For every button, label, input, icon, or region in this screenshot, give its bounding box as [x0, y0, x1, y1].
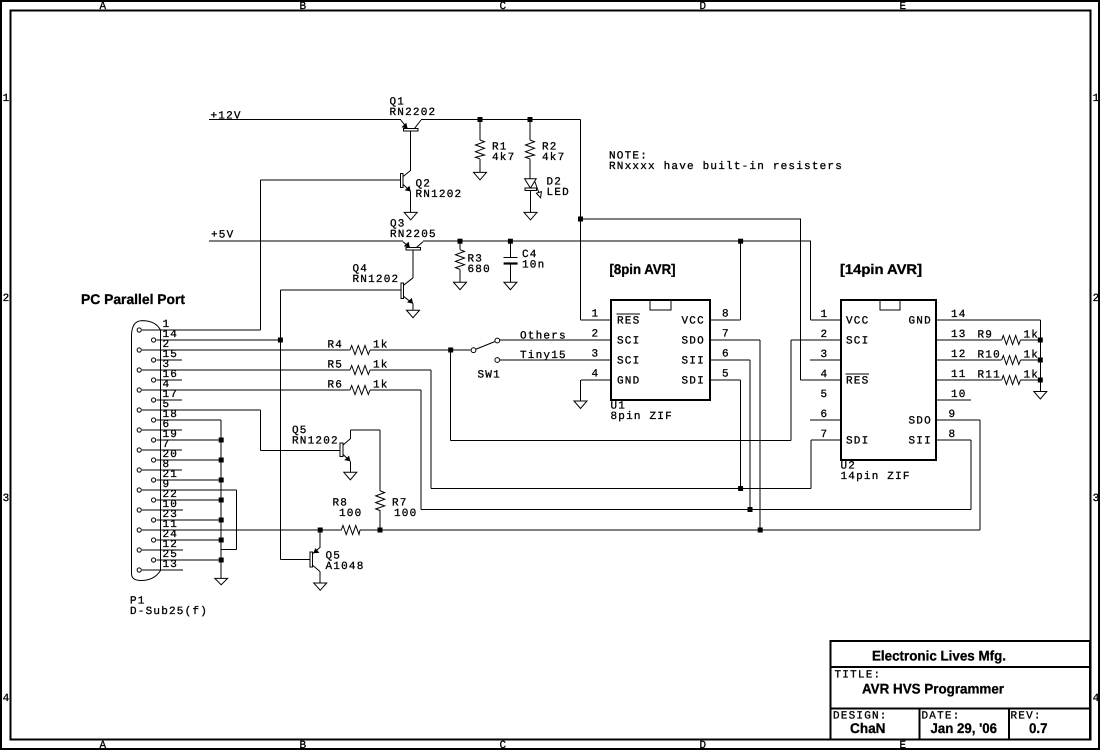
junction [458, 239, 463, 244]
wire U1 pin6 SII down [710, 360, 750, 510]
ground [215, 578, 228, 584]
switch SW1 [471, 338, 501, 381]
resistor R8 [333, 498, 363, 535]
U1 pin numbers [592, 309, 730, 381]
wire P1 stub pins [142, 360, 183, 570]
transistor Q2 [260, 170, 462, 212]
svg-text:B: B [300, 1, 308, 13]
svg-text:SII: SII [909, 436, 932, 448]
junction [318, 528, 323, 533]
svg-text:2: 2 [1093, 293, 1100, 305]
svg-text:RN1202: RN1202 [292, 436, 339, 448]
svg-text:0.7: 0.7 [1029, 720, 1048, 736]
svg-text:R5: R5 [328, 359, 344, 371]
ground [314, 583, 327, 590]
op-amp U2 14pin ZIF box [841, 300, 937, 483]
svg-text:1: 1 [1093, 93, 1100, 105]
svg-text:[14pin AVR]: [14pin AVR] [840, 261, 922, 277]
wire SW1 Others throw to U1 pin2 [500, 339, 611, 341]
junction [1038, 338, 1043, 343]
svg-text:SW1: SW1 [478, 370, 501, 382]
svg-text:C: C [500, 1, 508, 13]
note text [609, 151, 843, 174]
svg-text:2: 2 [592, 329, 600, 341]
svg-text:R9: R9 [978, 329, 994, 341]
resistor R4 with wire P1 pin2 to SW1 [142, 339, 471, 354]
junction [1038, 358, 1043, 363]
svg-text:D: D [700, 1, 708, 13]
resistor R3 [456, 241, 491, 282]
svg-text:RES: RES [617, 316, 640, 328]
pin circles right column P1 pins 14-25 [152, 338, 156, 562]
svg-text:C: C [500, 740, 508, 750]
transistor Q1 [390, 97, 437, 171]
svg-text:GND: GND [909, 316, 932, 328]
junction [748, 507, 753, 512]
svg-text:5: 5 [821, 389, 829, 401]
wire U2 pin6 stub [810, 419, 841, 421]
connector P1 outline [132, 321, 161, 581]
svg-text:1: 1 [3, 93, 11, 105]
svg-text:RN1202: RN1202 [353, 274, 400, 286]
wire U1 pin5 SDI down [710, 380, 741, 489]
resistor R10 with wire U2 pin12 [936, 349, 1040, 364]
wire P1 pin5 to Q5 base [142, 410, 340, 450]
svg-text:+5V: +5V [211, 229, 234, 241]
resistor R2 [526, 120, 566, 179]
wire U2 pin14 GND to resistor bus [936, 320, 1040, 392]
svg-text:7: 7 [821, 429, 829, 441]
svg-text:12: 12 [951, 349, 967, 361]
svg-text:+12V: +12V [211, 110, 242, 122]
junction [508, 239, 513, 244]
svg-text:10n: 10n [522, 260, 545, 272]
svg-text:Electronic Lives Mfg.: Electronic Lives Mfg. [872, 648, 1006, 664]
svg-text:SDI: SDI [682, 376, 705, 388]
svg-text:4: 4 [3, 693, 11, 705]
svg-text:5: 5 [722, 369, 730, 381]
junction [1038, 378, 1043, 383]
svg-text:A: A [100, 740, 108, 750]
svg-text:RES: RES [846, 376, 869, 388]
pin number labels P1 [163, 319, 179, 571]
svg-text:ChaN: ChaN [850, 720, 886, 736]
resistor R11 with wire U2 pin11 [936, 369, 1040, 384]
wire U1 pin7 SDO down [710, 340, 760, 530]
wire +5V rail [209, 241, 841, 320]
connector P1 label [130, 596, 208, 619]
svg-text:[8pin AVR]: [8pin AVR] [610, 261, 676, 277]
svg-text:14: 14 [951, 309, 967, 321]
svg-text:RN1202: RN1202 [416, 189, 463, 201]
svg-text:14pin ZIF: 14pin ZIF [841, 471, 911, 483]
svg-text:4: 4 [821, 369, 829, 381]
wire P1 pin9 to ground bus [142, 490, 236, 549]
svg-text:6: 6 [722, 349, 730, 361]
resistor R5 with wire P1 pin3 SDI net [142, 359, 431, 374]
wire U1 pin4 GND [581, 380, 612, 401]
ground [1034, 392, 1047, 400]
junction [478, 117, 483, 122]
ground [524, 212, 537, 220]
wire SDO net P1 pin11 row [142, 420, 980, 530]
wire U1 VCC pin8 [710, 241, 741, 320]
svg-text:SII: SII [682, 356, 705, 368]
svg-text:680: 680 [468, 264, 491, 276]
svg-text:11: 11 [951, 369, 967, 381]
junction [448, 348, 453, 353]
svg-text:9: 9 [949, 409, 957, 421]
svg-text:8: 8 [949, 429, 957, 441]
wire P1 pin1 to Q2 base [142, 180, 260, 330]
svg-text:LED: LED [547, 187, 570, 199]
svg-text:SDO: SDO [682, 336, 705, 348]
resistor R7 [376, 491, 418, 530]
svg-text:4k7: 4k7 [542, 152, 565, 164]
wire U2 pin10 stub [936, 399, 971, 401]
svg-text:2: 2 [3, 293, 11, 305]
junction [738, 239, 743, 244]
svg-text:RN2202: RN2202 [390, 107, 437, 119]
junction [528, 117, 533, 122]
resistor R6 with wire P1 pin4 SII net [142, 379, 421, 394]
transistor Q4 [280, 264, 413, 311]
svg-text:10: 10 [951, 389, 967, 401]
svg-text:8: 8 [722, 309, 730, 321]
svg-text:R4: R4 [328, 339, 344, 351]
ground [504, 282, 517, 290]
U1 pin labels [617, 314, 705, 388]
ground [474, 172, 487, 180]
svg-text:RN2205: RN2205 [390, 229, 437, 241]
svg-text:1k: 1k [1024, 329, 1040, 341]
svg-text:R10: R10 [978, 349, 1001, 361]
svg-text:VCC: VCC [682, 316, 705, 328]
transistor Q5 A1048 [310, 530, 365, 583]
svg-text:3: 3 [592, 349, 600, 361]
resistor R1 [476, 120, 516, 173]
svg-text:7: 7 [722, 329, 730, 341]
svg-text:R6: R6 [328, 379, 344, 391]
svg-text:1: 1 [592, 309, 600, 321]
svg-text:SCI: SCI [617, 336, 640, 348]
transistor Q5 RN1202 [292, 425, 380, 491]
svg-text:SDI: SDI [846, 436, 869, 448]
LED D2 [525, 177, 570, 213]
svg-text:A1048: A1048 [326, 561, 365, 573]
svg-text:8pin ZIF: 8pin ZIF [611, 411, 673, 423]
svg-text:PC Parallel Port: PC Parallel Port [81, 291, 185, 307]
junction [278, 338, 283, 343]
svg-text:Jan 29, '06: Jan 29, '06 [931, 720, 998, 736]
svg-text:D: D [700, 740, 708, 750]
svg-text:SDO: SDO [909, 416, 932, 428]
svg-text:6: 6 [821, 409, 829, 421]
svg-text:3: 3 [3, 493, 11, 505]
svg-text:3: 3 [821, 349, 829, 361]
ground [574, 401, 587, 409]
svg-text:RNxxxx have built-in resisters: RNxxxx have built-in resisters [609, 161, 843, 173]
U2 pin labels [846, 316, 932, 448]
svg-text:2: 2 [821, 329, 829, 341]
svg-text:4: 4 [1093, 693, 1100, 705]
wire P1 pin14 bus to Q4 base and Q5 A1048 base [156, 290, 310, 560]
wire SCI net to U2 pin2 [451, 340, 841, 440]
svg-text:100: 100 [394, 508, 417, 520]
svg-text:E: E [900, 1, 908, 13]
svg-text:1: 1 [821, 309, 829, 321]
junction [578, 217, 583, 222]
wire SII net to U2 pin8 [421, 390, 971, 510]
svg-text:SCI: SCI [617, 356, 640, 368]
svg-text:1k: 1k [373, 359, 389, 371]
transistor Q3 [390, 219, 437, 278]
pin circles left column P1 pins 1-13 [137, 328, 141, 572]
op-amp U1 8pin ZIF box [611, 300, 711, 423]
wire SDI net to U2 pin7 [431, 370, 841, 489]
resistor R9 with wire U2 pin13 [936, 329, 1040, 344]
svg-text:A: A [100, 1, 108, 13]
junction dots on ground bus [219, 438, 224, 563]
title block frame [831, 641, 1091, 740]
svg-text:1k: 1k [373, 379, 389, 391]
svg-text:100: 100 [339, 508, 362, 520]
svg-text:R11: R11 [978, 369, 1001, 381]
svg-text:1k: 1k [373, 339, 389, 351]
ground [454, 282, 467, 290]
wire +12V branch to U2 RES [581, 219, 842, 380]
svg-text:GND: GND [617, 376, 640, 388]
wire +12V rail [209, 120, 611, 321]
svg-text:3: 3 [1093, 493, 1100, 505]
svg-text:D-Sub25(f): D-Sub25(f) [130, 606, 208, 618]
svg-text:13: 13 [163, 559, 179, 571]
svg-text:SCI: SCI [846, 336, 869, 348]
ground [407, 310, 420, 318]
U2 pin numbers [821, 309, 967, 441]
svg-text:4k7: 4k7 [492, 152, 515, 164]
junction [758, 528, 763, 533]
svg-text:13: 13 [951, 329, 967, 341]
ground [404, 212, 417, 220]
ground [344, 472, 357, 480]
svg-text:VCC: VCC [846, 316, 869, 328]
capacitor C4 [504, 241, 546, 282]
wire SW1 Tiny15 throw to U1 pin3 [500, 359, 611, 361]
junction [378, 528, 383, 533]
svg-text:AVR HVS Programmer: AVR HVS Programmer [862, 681, 1005, 697]
svg-text:1k: 1k [1024, 369, 1040, 381]
junction [738, 486, 743, 491]
svg-text:E: E [900, 740, 908, 750]
wire U2 pin3 stub [810, 359, 841, 361]
svg-text:1k: 1k [1024, 349, 1040, 361]
svg-text:4: 4 [592, 369, 600, 381]
svg-text:TITLE:: TITLE: [835, 669, 882, 681]
wire P1 ground bus pins 18-25 [156, 420, 221, 578]
svg-text:B: B [300, 740, 308, 750]
